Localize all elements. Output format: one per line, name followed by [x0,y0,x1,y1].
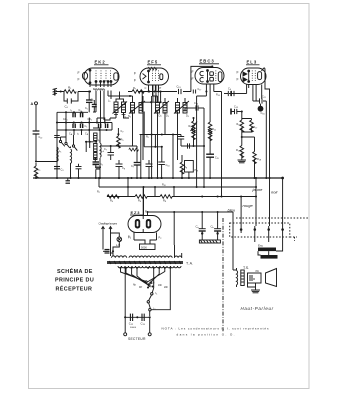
svg-text:F: F [145,210,147,214]
svg-text:C7: C7 [104,148,107,152]
trimmer CA2 [73,124,75,129]
svg-text:EL3: EL3 [247,60,258,65]
wire EL3 pins [247,85,262,102]
wire tuner to gnd verticals [57,137,71,178]
capacitor C7 [108,146,115,160]
svg-text:C: C [145,86,147,90]
svg-text:I1: I1 [156,291,159,296]
capacitor C18 [224,91,236,96]
svg-text:t1: t1 [71,109,73,113]
svg-text:Cb: Cb [211,225,215,230]
loop P18 [185,161,194,179]
node osc [117,133,119,135]
svg-text:C3: C3 [61,169,64,173]
tube EZ3 rectifier [128,216,161,233]
capacitor Cb [214,212,221,240]
tube EF5 [140,68,169,85]
wire y146.8 [144,146,162,148]
svg-text:rouge: rouge [243,203,254,208]
wire tuner inner verticals [66,112,112,141]
svg-text:R15: R15 [237,123,241,127]
wire jaune vertical [255,178,257,226]
wire EF5 drop [142,92,160,113]
wire noir vertical [282,178,284,226]
svg-text:EBC3: EBC3 [200,59,215,64]
capacitor Ca [199,212,206,240]
wire top input y91.5 [56,91,90,93]
svg-text:C13: C13 [141,322,146,327]
svg-text:R4: R4 [110,199,114,204]
svg-text:R8: R8 [163,199,167,204]
svg-text:5000: 5000 [141,245,147,249]
svg-text:NOTA : Les condensateurs I,: NOTA : Les condensateurs I, I, sont repr… [162,327,269,331]
svg-text:t4: t4 [124,115,126,119]
wire bleu corner to TS [233,212,236,270]
svg-text:F: F [78,71,80,75]
svg-text:R11: R11 [212,127,217,132]
trimmer t3 [99,124,101,129]
wire R19 to bus [35,174,37,179]
transformer TA core [107,261,183,264]
wire grid trimmer link [93,112,110,128]
fuse hatch [103,250,110,254]
capacitor C10 [158,162,165,178]
capacitor C14 [185,105,204,110]
capacitor C12v [178,137,184,147]
svg-text:EF5: EF5 [148,60,159,65]
page border frame [29,4,310,389]
wire EZ3 anode top [142,187,144,216]
node row3 [65,129,67,131]
svg-text:CV: CV [121,130,125,134]
connector dotted box [230,218,308,241]
coil L4b iron core [94,144,97,152]
svg-text:R1: R1 [68,86,72,91]
svg-text:130: 130 [158,284,162,287]
svg-text:D3: D3 [166,115,169,119]
ground TS [251,290,260,293]
volume pot arrow [191,122,198,132]
svg-text:C22: C22 [39,136,43,140]
wire y161.5 to tuner [36,161,57,163]
IFT2 transformer [156,103,160,114]
wire IFT1 [130,96,143,160]
resistor R16 [240,146,244,158]
capacitor row C21 [93,163,100,165]
TS core [241,270,244,286]
resistor R10 on HT line [129,148,139,151]
capacitor C16 electrolytic [258,104,264,112]
switch I2 [147,301,149,303]
svg-text:F: F [134,72,136,76]
svg-text:C15: C15 [234,105,239,110]
coil L2 [71,149,72,163]
box 5000 [140,244,156,250]
trimmer arrow osc [113,102,128,114]
svg-text:R6: R6 [138,199,142,204]
svg-text:C21: C21 [262,96,266,100]
wire EBC3 pins [206,84,213,122]
lamp LP [117,237,122,242]
wire IFT3 [178,98,186,130]
primary winding main [129,256,172,258]
wire EK2 plate right [108,96,130,99]
wire EK2 pins [90,82,111,87]
capacitor C9b [146,160,153,178]
svg-text:F: F [237,71,239,75]
capacitor C13 [179,89,182,94]
tube EK2 [82,68,119,85]
svg-text:G1G2G3G4G5: G1G2G3G4G5 [93,87,105,92]
svg-text:t2: t2 [77,133,79,137]
wire jaune below [255,233,283,242]
capacitor C19 [229,91,234,96]
node bus-antenna [35,177,37,179]
ground under C6 [95,167,101,178]
primary winding right [175,256,182,258]
resistor R17 [250,120,254,132]
tube EBC3 [195,68,224,85]
svg-text:R17: R17 [254,126,258,130]
wire y91.5 EF5 row [128,91,191,93]
wire y102.2 under EF5 [142,101,160,103]
wire IFT2 [153,96,166,178]
svg-text:P2: P2 [159,236,163,241]
svg-text:T. A.: T. A. [186,262,193,266]
wire TA right vertical [173,212,175,245]
wire EL3 cath cap [236,93,247,95]
svg-text:F: F [192,70,194,74]
capacitor C12 [130,314,132,321]
switch Ia [59,137,64,146]
wire EBC3 down [197,92,222,197]
resistor R18 [253,152,257,164]
selector tangle [121,268,165,288]
svg-text:CB: CB [85,133,89,137]
capacitor C2 [76,164,82,178]
capacitor C9 [134,146,141,178]
svg-text:C12: C12 [129,322,134,327]
wire terminal1 vertical [240,197,242,227]
tube EL3 [241,68,267,85]
svg-text:110: 110 [151,282,155,285]
svg-text:D4: D4 [186,115,189,119]
TS primary coil [237,271,238,285]
wire to ground [241,153,243,160]
resistor R12 [148,67,157,70]
svg-text:Chauffage lampes: Chauffage lampes [99,222,118,226]
trimmer CV2 [81,124,83,129]
resistor R4 [107,195,119,199]
wire heater terminals [103,228,111,257]
svg-text:F: F [78,78,80,82]
wire osc bottom [110,113,129,119]
svg-text:Haut-Parleur: Haut-Parleur [241,306,274,311]
coil L3 iron core [94,153,97,162]
resistor R19 [34,166,38,178]
capacitor C4 loop [64,92,78,102]
wire R5 [117,128,119,146]
capacitor C5b dark [92,100,97,112]
svg-text:CA1: CA1 [63,118,68,122]
wire tuner left vertical [56,112,58,178]
svg-text:8Ω: 8Ω [256,270,259,273]
capacitor C3b below bus [66,178,71,183]
wire verticals HT [99,178,174,216]
svg-text:C16: C16 [261,111,266,116]
svg-text:noir: noir [271,190,278,195]
capacitor C20 [260,98,263,103]
svg-text:SECTEUR: SECTEUR [128,337,146,341]
svg-text:F: F [237,78,239,82]
antenna terminal A [35,102,38,105]
resistor R11 [208,122,212,134]
svg-text:CA: CA [69,133,73,137]
svg-text:P: P [160,86,162,90]
wire EZ3 cath stub [147,212,149,216]
svg-text:R18: R18 [257,157,262,162]
node row1 [65,111,67,113]
capacitor C13b [142,314,144,321]
resistor R9 [192,121,196,133]
svg-text:R5: R5 [121,138,125,143]
svg-text:L1: L1 [59,150,61,154]
wire L4 [99,128,101,178]
coil L1 [57,147,58,161]
resistor R8b [160,195,172,199]
svg-text:90º: 90º [139,285,142,289]
chassis ground bus [33,177,283,179]
TS secondary box [248,273,262,283]
wire EF5 pins [149,85,159,103]
svg-text:bleu: bleu [228,208,236,213]
wire y146 right [181,145,204,147]
capacitor C6 [93,162,100,167]
svg-text:C6: C6 [228,87,232,92]
svg-text:F: F [134,79,136,83]
capacitor C11 [206,154,214,178]
trimmer CA1 [73,113,75,118]
node antenna junction [35,160,37,162]
IFT1 transformer [131,103,135,114]
wire y146 [100,145,137,147]
svg-text:A: A [31,102,34,106]
wire EZ3 bottom pins [134,233,157,241]
wire y101 [253,101,266,178]
wire bundle EF5 pins [152,85,158,102]
wire rouge line y196.5 [107,196,256,198]
svg-text:L5: L5 [108,100,110,104]
resistor R8v [180,162,184,174]
wire resistors bottom [242,127,255,151]
wire osc top [116,92,124,103]
capacitor C3 [54,167,60,179]
ground right [238,160,247,163]
svg-text:R7: R7 [133,86,137,91]
capacitor C17 [33,131,40,136]
capacitor C8 [116,160,123,178]
resistor R1 [64,90,76,94]
svg-text:PRINCIPE DU: PRINCIPE DU [55,278,94,284]
capacitor C17b [193,90,195,94]
wire R18 to bus [254,159,256,178]
terminal mains left [124,333,127,336]
node rouge line [201,195,203,197]
svg-text:C10: C10 [166,163,171,168]
ground bar caps [199,240,220,243]
wire HT line y187 [99,186,256,188]
svg-text:C15: C15 [215,157,219,161]
svg-text:RÉCEPTEUR: RÉCEPTEUR [56,285,93,293]
node bus c2 [77,177,79,179]
switch Ib [65,137,70,148]
wire EL3 plate out [262,68,270,178]
svg-text:SCHÉMA DE: SCHÉMA DE [57,267,93,275]
tuner row wire y122.5 [57,122,112,124]
svg-text:R2: R2 [97,191,100,195]
tuner row wire y112.3 [57,111,88,113]
svg-text:C17: C17 [198,88,202,92]
wire y141.8 [85,141,96,143]
resistor R6 [135,195,147,199]
resistor R15 [240,120,244,132]
svg-text:C9: C9 [131,165,134,169]
wire TS secondary gnd [248,283,256,290]
svg-text:50000: 50000 [130,327,137,329]
svg-text:C4: C4 [65,105,69,110]
wire EBC3 grid loop [191,66,212,91]
terminal strip [240,226,284,233]
secondary winding [118,266,181,268]
oscillator coil pair [114,102,118,113]
svg-text:C5: C5 [85,107,88,111]
trimmer CV1 [81,113,83,118]
svg-text:EZ3: EZ3 [131,210,141,215]
svg-text:No: No [133,284,137,287]
earth terminal stub top left [53,88,57,95]
svg-text:R14: R14 [216,94,220,98]
speaker cone [266,269,277,287]
svg-text:L.P.: L.P. [116,243,121,247]
svg-text:R8: R8 [184,165,188,170]
tuner row wire y130 [57,129,112,131]
wire bleu filament line y212 [148,211,234,213]
wire antenna down [35,105,37,166]
wire terminal3 vertical [269,178,271,226]
node HT line [127,186,129,188]
terminal mains right [148,333,151,336]
svg-text:C1: C1 [85,125,88,129]
wire avc drops [141,120,181,178]
wire mains line y317.3 [124,317,149,332]
svg-text:F: F [192,77,194,81]
svg-text:N1: N1 [128,114,132,119]
svg-text:EK2: EK2 [95,60,106,65]
wire mains left vertical [124,268,126,333]
capacitor C17L [54,136,60,138]
switch I1 [151,293,153,295]
chassis dash-dot line [222,218,224,332]
node input [60,90,62,92]
node row2 [56,121,58,123]
capacitor C5 [86,92,93,113]
svg-text:D2: D2 [159,114,163,119]
svg-text:R: R [253,277,256,281]
wire right tap down [151,268,170,310]
coil L4 [100,143,101,157]
svg-text:240: 240 [164,286,168,289]
svg-text:T.S.: T.S. [243,266,249,270]
resistor R7 [132,90,144,94]
coil L5 iron core [94,133,97,141]
svg-text:I2: I2 [154,307,157,312]
svg-text:Exc: Exc [258,244,264,248]
svg-text:jaune: jaune [252,187,264,192]
svg-text:R5: R5 [146,136,149,140]
svg-text:dans la position G. O.: dans la position G. O. [177,333,235,337]
wire if vertical [151,96,153,178]
svg-text:t5: t5 [98,139,100,143]
resistor R5 [117,136,121,148]
primary winding left [112,256,127,258]
svg-text:C8: C8 [122,166,126,171]
wire coupling down [178,108,205,187]
capacitor C15 [231,109,242,115]
IFT3 transformer [176,103,180,114]
wire right resistors top [242,112,252,121]
svg-text:C13: C13 [177,85,182,90]
switch Ic [72,135,77,151]
wire y134.5 [140,134,182,136]
